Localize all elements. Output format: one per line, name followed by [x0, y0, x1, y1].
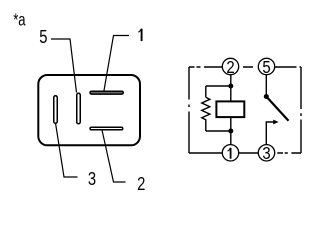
svg-text:3: 3 [262, 144, 270, 163]
svg-text:2: 2 [226, 58, 234, 77]
svg-text:5: 5 [39, 26, 47, 47]
svg-text:2: 2 [137, 173, 145, 194]
svg-text:*a: *a [13, 11, 26, 30]
svg-text:5: 5 [262, 58, 270, 77]
svg-text:3: 3 [88, 168, 96, 189]
